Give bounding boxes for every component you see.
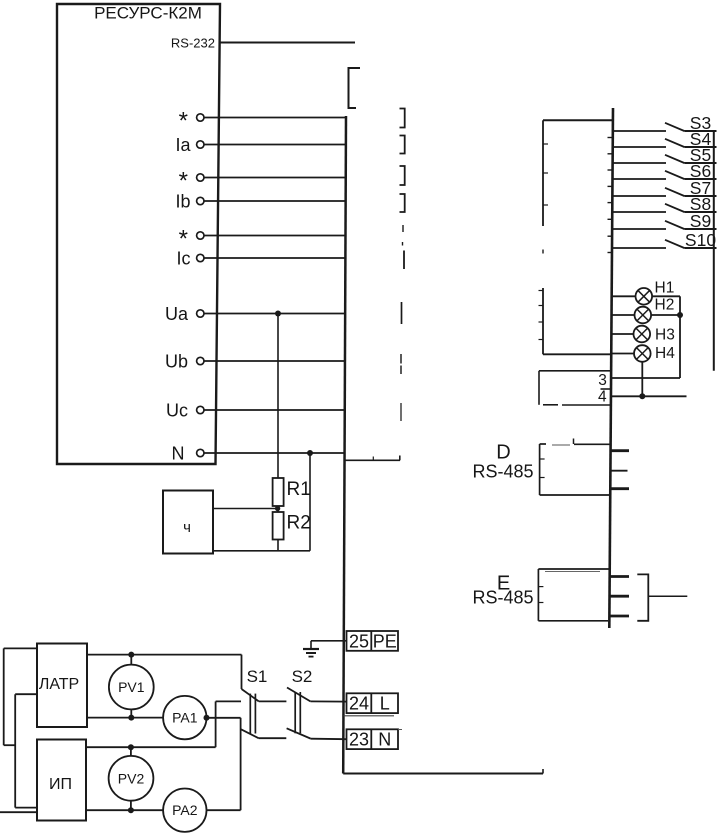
svg-text:PE: PE <box>373 631 397 651</box>
svg-text:L: L <box>380 694 390 714</box>
svg-text:N: N <box>378 730 391 750</box>
svg-text:PV1: PV1 <box>118 679 145 695</box>
svg-text:H3: H3 <box>655 326 675 343</box>
svg-text:S10: S10 <box>685 230 716 250</box>
svg-text:PV2: PV2 <box>118 770 145 786</box>
svg-text:3: 3 <box>598 372 607 389</box>
svg-text:H2: H2 <box>655 297 675 314</box>
svg-text:Ia: Ia <box>175 135 191 155</box>
svg-text:ЛАТР: ЛАТР <box>39 676 79 693</box>
svg-text:N: N <box>172 443 185 463</box>
svg-text:S1: S1 <box>247 667 268 686</box>
svg-text:S2: S2 <box>292 667 313 686</box>
svg-text:PA2: PA2 <box>172 802 198 818</box>
svg-text:Ib: Ib <box>175 191 190 211</box>
svg-text:Uc: Uc <box>166 400 188 420</box>
svg-text:H1: H1 <box>655 280 675 297</box>
svg-text:R1: R1 <box>287 479 311 500</box>
svg-text:Ic: Ic <box>176 248 190 268</box>
svg-text:*: * <box>179 108 188 135</box>
svg-text:RS-232: RS-232 <box>171 36 215 51</box>
svg-text:RS-485: RS-485 <box>472 588 533 608</box>
svg-text:24: 24 <box>349 694 369 714</box>
svg-text:H4: H4 <box>655 345 675 362</box>
svg-text:D: D <box>496 442 510 464</box>
svg-text:S9: S9 <box>690 211 711 231</box>
svg-text:RS-485: RS-485 <box>472 462 533 482</box>
svg-text:Ua: Ua <box>165 304 189 324</box>
svg-text:23: 23 <box>349 730 369 750</box>
svg-text:ИП: ИП <box>49 776 72 793</box>
svg-text:ч: ч <box>183 519 191 536</box>
svg-text:4: 4 <box>598 389 607 406</box>
svg-text:R2: R2 <box>287 513 311 534</box>
svg-text:Ub: Ub <box>165 351 188 371</box>
svg-text:РЕСУРС-К2М: РЕСУРС-К2М <box>94 4 202 23</box>
svg-text:25: 25 <box>349 631 369 651</box>
svg-text:PA1: PA1 <box>172 710 198 726</box>
